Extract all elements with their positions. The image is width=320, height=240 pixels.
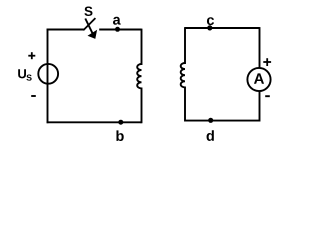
minus sign of ammeter <box>265 95 270 97</box>
switch S lever blade <box>83 18 95 30</box>
label S <box>84 6 92 16</box>
node b dot <box>118 120 123 125</box>
voltage source US circle <box>38 64 58 84</box>
inductor L1 right side of left loop (wire with 4 bumps facing left) <box>137 29 141 124</box>
switch S closing-arrow shaft <box>85 19 93 35</box>
label b <box>116 130 123 141</box>
node d dot <box>208 118 213 123</box>
plus sign of ammeter <box>263 58 271 66</box>
wire: left loop bottom <box>47 121 142 123</box>
plus sign of source <box>28 52 35 59</box>
wire: left loop top, left segment to switch <box>47 29 85 31</box>
label U_S <box>18 69 31 80</box>
switch S arrowhead <box>88 30 98 39</box>
inductor L2 left side of right loop (wire with 4 bumps facing left) <box>181 27 185 121</box>
label d <box>207 130 214 141</box>
node a dot <box>115 27 120 32</box>
wire: left loop left side (passes through source circle) <box>47 29 49 124</box>
wire: right loop top <box>185 27 260 29</box>
wire: right loop right side, bottom segment <box>259 91 261 122</box>
ammeter A circle <box>247 68 270 91</box>
label c <box>207 17 214 25</box>
wire: left loop top, right segment from switch to corner <box>99 29 141 31</box>
wire: right loop right side, top segment <box>259 27 261 68</box>
minus sign of source <box>31 95 36 97</box>
ammeter letter A <box>254 73 264 83</box>
node c dot <box>207 25 212 30</box>
label a <box>113 17 121 25</box>
wire: right loop bottom <box>185 120 260 122</box>
